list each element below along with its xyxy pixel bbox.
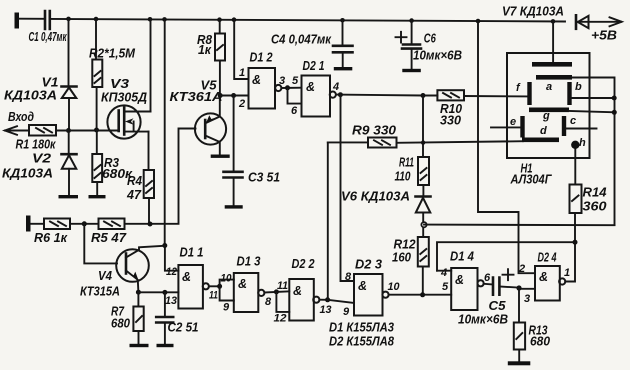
resistor R9	[352, 124, 397, 148]
svg-text:R12: R12	[394, 238, 416, 252]
resistor R4	[126, 170, 154, 202]
svg-text:D1 К155ЛА3: D1 К155ЛА3	[329, 321, 394, 335]
wire V3 drain to rail	[150, 19, 152, 111]
node rail-V3drain	[148, 17, 153, 22]
wire R7 to ground	[138, 331, 140, 344]
svg-text:330: 330	[440, 114, 461, 128]
wire V3 source down to R4	[148, 132, 150, 170]
wire V6 to ring node	[422, 213, 424, 238]
ground C2	[157, 344, 174, 347]
resistor R13	[514, 323, 550, 350]
gate D2.3	[343, 258, 400, 319]
wire D1.4 out to C5	[484, 283, 493, 286]
gate D1.3	[221, 255, 273, 314]
svg-text:1: 1	[239, 67, 245, 79]
svg-text:1: 1	[564, 267, 570, 279]
node rail-C6	[409, 18, 414, 23]
terminal E2 (touch plate)	[26, 216, 31, 232]
svg-text:D2 К155ЛА8: D2 К155ЛА8	[329, 335, 394, 349]
svg-text:R5 47: R5 47	[91, 231, 127, 245]
wire pin1 from rail	[234, 20, 248, 79]
capacitor C3	[224, 171, 281, 206]
wire R13 riser	[518, 288, 520, 323]
svg-text:b: b	[575, 81, 582, 93]
wire R13 to ground	[518, 350, 520, 362]
display common anode bar	[532, 62, 572, 67]
svg-text:КП305Д: КП305Д	[101, 91, 147, 105]
gate D2.4	[518, 251, 570, 306]
wire R8 column from rail	[219, 20, 221, 34]
node V4 emitter	[136, 290, 141, 295]
svg-text:6: 6	[484, 272, 491, 284]
svg-text:110: 110	[395, 170, 411, 184]
segment e	[510, 116, 525, 138]
wire D2.4 pin2 riser from rail x478	[478, 21, 535, 273]
node input-V1V2	[66, 128, 71, 133]
svg-text:D2 4: D2 4	[538, 251, 557, 265]
diode V7	[502, 5, 589, 29]
ground V5	[211, 155, 230, 158]
svg-text:V3: V3	[110, 77, 129, 91]
svg-text:3: 3	[524, 293, 530, 305]
ground R7	[130, 344, 149, 347]
wire R14 to h dot	[574, 148, 576, 185]
wire bus right from ring	[424, 224, 615, 227]
node R14-out	[573, 240, 578, 245]
svg-text:360: 360	[583, 200, 607, 214]
diode V1	[4, 76, 77, 103]
svg-text:+5В: +5В	[591, 29, 617, 43]
node R12 bottom	[420, 292, 425, 297]
svg-text:D2 2: D2 2	[292, 257, 315, 271]
wire top rail C1 to V7	[50, 19, 565, 22]
svg-text:680: 680	[111, 317, 130, 331]
resistor R5	[91, 219, 127, 246]
ground R13	[508, 361, 531, 365]
segment b	[567, 81, 582, 105]
node R9-R11	[421, 140, 425, 144]
ground V1V2	[59, 195, 79, 198]
wire E2 to R6	[31, 223, 45, 225]
resistor R2	[89, 47, 136, 88]
segment d	[522, 125, 559, 142]
resistor R1	[16, 125, 57, 152]
svg-text:V6 КД103А: V6 КД103А	[341, 190, 410, 204]
wire R11 riser	[422, 96, 424, 158]
gate D1.4	[440, 250, 491, 311]
svg-text:C4 0,047мк: C4 0,047мк	[271, 33, 332, 47]
resistor R11	[395, 156, 430, 186]
resistor R14	[570, 185, 607, 214]
svg-text:1к: 1к	[198, 43, 212, 57]
resistor R7	[111, 292, 144, 331]
svg-text:2: 2	[238, 98, 245, 110]
svg-text:12: 12	[274, 313, 287, 325]
svg-text:d: d	[540, 125, 547, 137]
wire pin10 jog	[220, 280, 234, 287]
svg-text:&: &	[358, 279, 367, 293]
svg-text:КТ315А: КТ315А	[80, 285, 120, 299]
svg-text:11: 11	[277, 280, 288, 292]
wire pin4 entry	[437, 270, 451, 272]
svg-text:10: 10	[388, 281, 401, 293]
svg-text:160: 160	[392, 251, 411, 265]
svg-text:R1 180к: R1 180к	[16, 138, 57, 152]
node rail-D24pin2	[476, 19, 481, 24]
svg-text:10мк×6В: 10мк×6В	[413, 49, 462, 63]
wire C6 from rail	[411, 21, 413, 44]
resistor R10	[437, 90, 464, 127]
wire R8 to emitter node	[219, 61, 221, 96]
svg-text:10: 10	[221, 273, 233, 285]
svg-text:c: c	[570, 115, 576, 127]
wire V1 to input node	[68, 98, 70, 131]
svg-text:47: 47	[126, 188, 142, 202]
svg-text:АЛ304Г: АЛ304Г	[510, 173, 553, 187]
display H1 box	[507, 53, 590, 187]
transistor V3 (MOSFET)	[101, 77, 151, 139]
svg-text:КТ361А: КТ361А	[170, 90, 223, 104]
svg-text:8: 8	[345, 271, 352, 283]
wire R2 to node	[96, 87, 98, 130]
svg-text:R11: R11	[399, 156, 414, 170]
wire R10 to f segment	[464, 95, 528, 97]
svg-text:R9 330: R9 330	[352, 124, 396, 138]
segment h dot	[571, 137, 586, 149]
wire R6 to node	[70, 223, 99, 225]
svg-text:5: 5	[442, 281, 449, 293]
ground C4	[334, 67, 353, 70]
segment a	[536, 75, 572, 93]
wire pin6 loop	[288, 88, 302, 104]
capacitor C1	[45, 11, 50, 29]
wire b to bus	[572, 97, 615, 99]
wire D2.4 out to R14 node	[565, 213, 575, 282]
svg-text:R14: R14	[583, 186, 607, 200]
node R6R5-base	[82, 221, 87, 226]
svg-text:R2*1,5M: R2*1,5M	[89, 47, 136, 61]
ground R3	[89, 195, 106, 198]
wire emitter node to pin13	[138, 291, 178, 293]
svg-text:12: 12	[166, 266, 177, 278]
wire R2 column from rail	[95, 19, 97, 60]
svg-text:6: 6	[291, 105, 298, 117]
svg-text:КД103А: КД103А	[4, 89, 57, 103]
svg-text:a: a	[546, 81, 552, 93]
wire pin4 riser down to D2.3 pin8	[341, 95, 355, 281]
wire rail to common bar	[552, 21, 554, 62]
resistor R3	[92, 130, 132, 182]
svg-text:13: 13	[320, 304, 332, 316]
wire g to bus	[569, 111, 615, 112]
svg-text:R4: R4	[127, 174, 142, 188]
node R4-R5	[148, 222, 153, 227]
node rail-display	[551, 19, 556, 24]
resistor R6	[34, 219, 70, 246]
wire D1.1 out to jogs	[209, 285, 220, 287]
resistor R12	[392, 237, 429, 267]
svg-text:C6: C6	[424, 32, 437, 46]
svg-text:4: 4	[440, 267, 447, 279]
segment c	[562, 115, 576, 136]
wire V2 to ground	[68, 169, 70, 196]
terminal E1 (touch plate)	[15, 13, 20, 29]
svg-text:680: 680	[530, 335, 550, 349]
wire V4 base from node	[84, 224, 117, 264]
node rail-x165	[162, 17, 167, 22]
wire C3 riser	[233, 96, 235, 172]
svg-text:КД103А: КД103А	[2, 167, 53, 181]
svg-text:13: 13	[165, 295, 177, 307]
svg-text:&: &	[306, 80, 315, 94]
node V4 collector junction	[162, 243, 167, 248]
segment g	[529, 108, 569, 123]
capacitor C6	[396, 32, 463, 69]
svg-text:C2 51: C2 51	[168, 321, 199, 335]
wire a to right bus	[572, 78, 615, 226]
svg-text:3: 3	[279, 75, 285, 87]
diode V2	[2, 131, 77, 181]
node V6-R12-bus	[421, 222, 426, 227]
ground C6	[402, 69, 421, 72]
svg-text:g: g	[542, 110, 550, 122]
wire D2.3 out to D1.4 pin5	[389, 294, 452, 296]
node rail-V1	[66, 17, 71, 22]
segment f	[516, 82, 532, 105]
wire c stub	[566, 128, 596, 130]
node C2 junction	[162, 290, 167, 295]
svg-text:11: 11	[209, 290, 218, 302]
wire pin2 from node to gate D1.2	[220, 95, 248, 97]
wire R3 to ground	[96, 182, 98, 196]
svg-text:D2 1: D2 1	[303, 59, 325, 73]
svg-text:C5: C5	[489, 299, 507, 313]
node pin3-5-6	[285, 85, 290, 90]
svg-text:D2 3: D2 3	[355, 258, 382, 272]
node R10-R11	[421, 93, 426, 98]
svg-text:5: 5	[292, 75, 299, 87]
ground C3	[225, 205, 243, 208]
capacitor C2	[156, 292, 198, 344]
transistor V5 (KT361A PNP)	[170, 79, 227, 155]
svg-text:10мк×6В: 10мк×6В	[458, 313, 508, 327]
node D1.3 out	[274, 289, 279, 294]
node rail-C4	[340, 18, 345, 23]
wire pin4 feedback line	[437, 242, 575, 271]
node rail-R2	[94, 17, 99, 22]
svg-text:C1 0,47мк: C1 0,47мк	[29, 30, 67, 44]
wire D1.3 out to D2.2	[264, 291, 289, 292]
svg-text:&: &	[539, 270, 548, 284]
svg-text:V7 КД103А: V7 КД103А	[502, 5, 564, 19]
svg-text:V1: V1	[42, 76, 59, 90]
node pin4	[338, 92, 343, 97]
svg-text:e: e	[510, 116, 516, 128]
svg-text:D1 1: D1 1	[180, 246, 204, 260]
svg-text:9: 9	[223, 302, 230, 314]
svg-text:C3 51: C3 51	[248, 171, 280, 185]
node C5-R13-pin3	[516, 285, 521, 290]
svg-text:V2: V2	[32, 152, 51, 166]
resistor R8	[197, 33, 225, 61]
capacitor C5	[458, 269, 514, 326]
wire pin9 jog	[220, 286, 234, 300]
node bus-b	[612, 96, 617, 101]
wire R4 to bottom node	[148, 198, 150, 224]
svg-text:h: h	[579, 137, 586, 149]
transistor V4 (KT315A NPN)	[80, 246, 165, 299]
svg-text:9: 9	[343, 306, 350, 318]
gate D2.1	[291, 59, 339, 117]
wire R9 line and d-wire	[328, 141, 523, 143]
node rail-pin1	[232, 17, 237, 22]
node R2R3-gate	[94, 128, 99, 133]
svg-text:D1 4: D1 4	[450, 250, 474, 264]
node bus-g	[612, 110, 617, 115]
gate D1.1	[165, 246, 218, 309]
svg-text:R6 1к: R6 1к	[34, 231, 68, 245]
wire R1 to V3 gate	[56, 130, 119, 132]
input arrow Vhod	[5, 110, 34, 135]
wire D1.2 out to D2.1 pin5	[281, 87, 301, 89]
wire V1 column from rail	[68, 19, 70, 86]
svg-text:V4: V4	[98, 269, 112, 283]
wire x165 rail to V4 collector and pin12	[165, 19, 179, 270]
wire R12 to pin10 line	[422, 267, 424, 295]
node D2.2 out riser	[325, 297, 330, 302]
svg-text:4: 4	[332, 81, 339, 93]
wire top rail left to C1	[19, 18, 44, 20]
wire riser D2.2out to R9	[327, 143, 329, 300]
capacitor C4	[271, 33, 353, 68]
wire D2.1 out pin4 to R10	[336, 94, 437, 97]
svg-text:&: &	[252, 73, 261, 87]
wire pin12 loop D2.2	[276, 292, 289, 312]
diode V6	[341, 185, 431, 213]
+5V arrow	[576, 17, 622, 42]
node rail-R8	[217, 17, 222, 22]
wire C4 from rail	[342, 20, 344, 45]
svg-text:D1 3: D1 3	[237, 255, 261, 269]
wire C5 to D2.4 pin3	[499, 287, 535, 289]
svg-text:&: &	[238, 277, 247, 291]
svg-text:&: &	[293, 284, 302, 298]
svg-text:&: &	[455, 273, 464, 287]
svg-text:D1 2: D1 2	[250, 51, 273, 65]
node R8-V5-pin2	[218, 93, 223, 98]
svg-text:Вход: Вход	[8, 110, 34, 124]
gate D1.2	[238, 51, 285, 111]
wire D2.2 out to D2.3 pin9	[319, 300, 354, 303]
wire e stub	[491, 126, 520, 128]
gate D2.2	[274, 257, 332, 325]
svg-text:8: 8	[265, 296, 272, 308]
wire R5 to V5 base riser	[125, 129, 196, 224]
svg-text:&: &	[182, 270, 191, 284]
node D1.1 out	[217, 284, 222, 289]
node C3 riser	[231, 93, 236, 98]
